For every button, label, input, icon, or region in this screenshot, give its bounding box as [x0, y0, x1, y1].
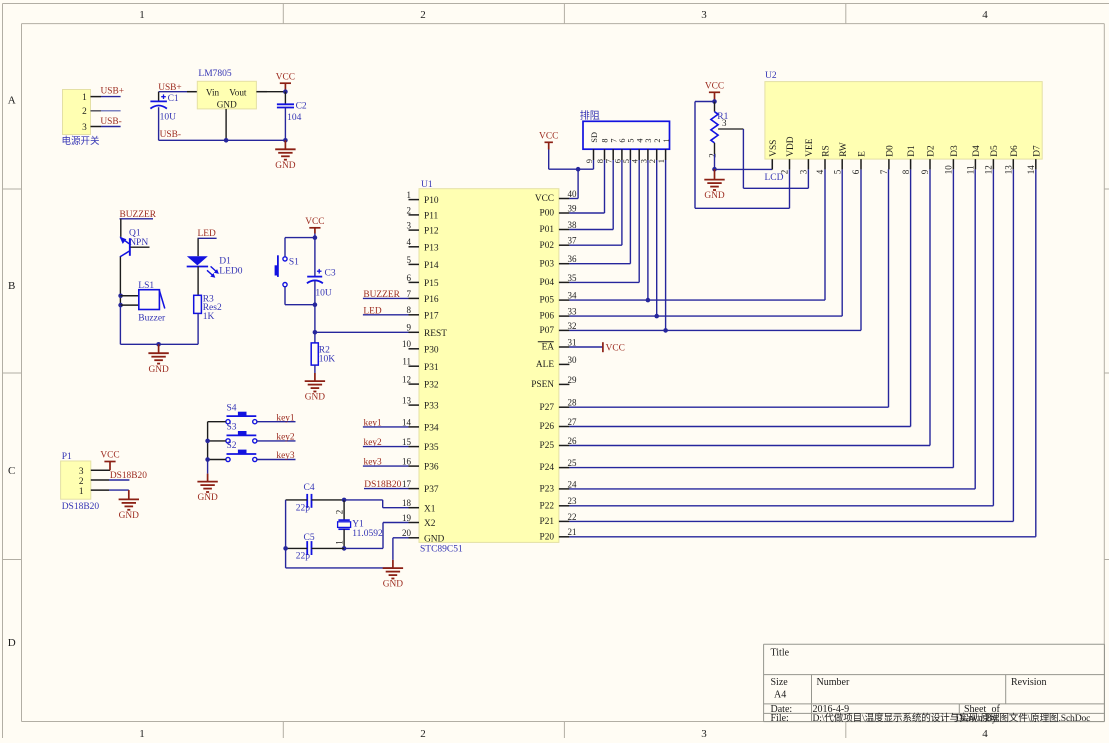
wire keys common — [207, 422, 209, 474]
svg-text:key1: key1 — [276, 413, 295, 423]
U1 pin 11 P31 — [402, 357, 439, 373]
svg-text:7: 7 — [407, 289, 412, 299]
wire X1 — [344, 500, 408, 508]
LCD module U2 body — [765, 71, 1043, 183]
U1 pin 25 P24 — [540, 458, 577, 473]
svg-text:1: 1 — [662, 139, 671, 143]
U1 pin 28 P27 — [540, 398, 577, 413]
svg-text:P17: P17 — [424, 311, 439, 321]
svg-text:P12: P12 — [424, 227, 439, 237]
junction — [342, 546, 347, 551]
wire R2 to ground — [314, 365, 316, 373]
svg-text:1: 1 — [139, 9, 145, 21]
svg-text:11: 11 — [966, 166, 976, 175]
junction — [205, 439, 210, 444]
junction — [283, 89, 288, 94]
svg-text:GND: GND — [148, 365, 169, 375]
U1 pin 12 P32 — [402, 375, 439, 391]
svg-text:8: 8 — [901, 169, 911, 174]
svg-text:Revision: Revision — [1011, 677, 1047, 688]
wire pull-up — [569, 160, 604, 213]
ground — [383, 560, 404, 590]
regulator LM7805 — [197, 69, 256, 109]
wire X2 — [344, 523, 408, 549]
svg-text:VCC: VCC — [305, 217, 324, 227]
U2 pin 3 VEE — [799, 138, 815, 174]
wire LCD data — [569, 169, 910, 426]
svg-text:P06: P06 — [540, 312, 555, 322]
svg-text:VCC: VCC — [606, 343, 625, 353]
wire pin1 — [91, 96, 121, 98]
svg-text:D5: D5 — [990, 145, 1000, 157]
junction — [118, 303, 123, 308]
RN pin 4 — [631, 139, 645, 164]
svg-text:A: A — [8, 95, 16, 107]
U2 pin 8 D1 — [901, 145, 917, 174]
svg-text:5: 5 — [832, 169, 842, 174]
svg-text:A4: A4 — [774, 690, 786, 701]
svg-text:B: B — [8, 280, 15, 292]
svg-text:RS: RS — [822, 145, 832, 156]
svg-text:4: 4 — [635, 139, 644, 143]
U2 pin 13 D6 — [1004, 145, 1020, 174]
svg-text:电源开关: 电源开关 — [62, 135, 101, 147]
U1 pin 7 P16 — [407, 289, 439, 305]
wire P35 — [363, 446, 409, 448]
svg-text:File:: File: — [771, 713, 789, 724]
svg-text:30: 30 — [568, 355, 578, 365]
svg-text:P13: P13 — [424, 243, 439, 253]
switch S4 — [226, 403, 257, 424]
svg-text:P03: P03 — [540, 259, 555, 269]
U1 pin 20 GND — [402, 528, 445, 544]
svg-text:U2: U2 — [765, 71, 777, 81]
U1 pin 1 P10 — [407, 190, 439, 206]
U1 pin 29 PSEN — [531, 375, 577, 390]
svg-text:22p: 22p — [296, 552, 311, 562]
wire REST — [315, 331, 409, 333]
wire to LS1 pins — [120, 296, 138, 305]
U1 pin 22 P21 — [540, 512, 577, 527]
svg-text:P01: P01 — [540, 225, 555, 235]
svg-text:C4: C4 — [304, 483, 315, 493]
svg-text:3: 3 — [407, 221, 412, 231]
wire R1 wiper to VEE — [718, 129, 808, 188]
svg-text:8: 8 — [601, 139, 610, 143]
U1 pin 16 P36 — [402, 457, 439, 473]
wire pull-up — [647, 160, 649, 300]
U1 pin 24 P23 — [540, 479, 577, 494]
wire P1 pin2 — [91, 479, 130, 481]
buzzer LS1 — [138, 281, 166, 324]
RN pin 5 — [622, 139, 636, 164]
svg-text:GND: GND — [197, 493, 218, 503]
wire pull-up — [665, 160, 667, 330]
svg-text:VSS: VSS — [769, 140, 779, 157]
U1 pin 10 P30 — [402, 339, 439, 355]
svg-text:USB+: USB+ — [101, 87, 125, 97]
wire LCD control — [569, 169, 825, 300]
svg-text:23: 23 — [568, 496, 578, 506]
U2 pin 11 D4 — [966, 145, 982, 174]
svg-text:2: 2 — [780, 170, 790, 175]
svg-text:9: 9 — [407, 323, 412, 333]
U1 pin 15 P35 — [402, 437, 439, 453]
wire LCD data — [569, 169, 930, 445]
connector P1 — [61, 452, 100, 512]
svg-text:P07: P07 — [540, 326, 555, 336]
wire emitter rail — [119, 305, 121, 344]
svg-text:22p: 22p — [296, 504, 311, 514]
svg-text:3: 3 — [644, 139, 653, 143]
capacitor C5 — [296, 533, 315, 562]
svg-text:NPN: NPN — [129, 238, 148, 248]
svg-text:9: 9 — [920, 169, 930, 174]
svg-text:LM7805: LM7805 — [198, 69, 232, 79]
RN pin 9 — [585, 132, 599, 163]
svg-text:P27: P27 — [540, 403, 555, 413]
svg-text:18: 18 — [402, 498, 412, 508]
svg-text:2: 2 — [79, 477, 84, 487]
U1 pin 34 P05 — [540, 291, 577, 306]
svg-text:3: 3 — [79, 467, 84, 477]
wire pull-up — [569, 160, 639, 282]
svg-text:1K: 1K — [203, 312, 215, 322]
crystal Y1 — [335, 500, 383, 549]
svg-text:STC89C51: STC89C51 — [420, 545, 463, 555]
svg-text:P20: P20 — [540, 532, 555, 542]
svg-text:D3: D3 — [950, 145, 960, 157]
wire U1 GND pin — [393, 538, 409, 560]
U2 pin 12 D5 — [984, 145, 1000, 174]
resistor R2 — [311, 343, 335, 365]
U2 pin 7 D0 — [879, 145, 895, 174]
wire pull-up — [569, 160, 622, 245]
svg-text:X2: X2 — [424, 519, 436, 529]
svg-text:10: 10 — [944, 165, 954, 175]
svg-text:40: 40 — [568, 189, 578, 199]
svg-text:VCC: VCC — [100, 451, 119, 461]
svg-text:P37: P37 — [424, 485, 439, 495]
RN pin 6 — [613, 139, 627, 164]
wire pin3 — [91, 126, 121, 128]
svg-text:10K: 10K — [319, 354, 336, 364]
junction — [118, 294, 123, 299]
svg-text:2: 2 — [420, 9, 426, 21]
svg-text:ALE: ALE — [536, 360, 554, 370]
wire LCD data — [569, 169, 1013, 521]
svg-text:13: 13 — [402, 396, 412, 406]
svg-text:P15: P15 — [424, 279, 439, 289]
U2 pin 9 D2 — [920, 145, 936, 174]
svg-text:8: 8 — [596, 159, 605, 163]
svg-text:D0: D0 — [886, 145, 896, 157]
wire BUZZER stub — [120, 218, 154, 220]
wire pull-up — [569, 160, 630, 264]
svg-text:P32: P32 — [424, 381, 439, 391]
switch S2 — [226, 441, 257, 461]
power port VCC reset — [305, 217, 324, 238]
svg-text:37: 37 — [568, 236, 578, 246]
svg-text:26: 26 — [568, 436, 578, 446]
svg-text:GND: GND — [383, 580, 404, 590]
svg-text:USB-: USB- — [160, 130, 181, 140]
svg-text:10: 10 — [402, 339, 412, 349]
U1 pin 31 EA — [538, 337, 577, 352]
svg-text:C: C — [8, 465, 15, 477]
wire bottom rail buzzer — [120, 343, 198, 345]
svg-text:P24: P24 — [540, 463, 555, 473]
svg-text:D1: D1 — [219, 257, 231, 267]
wire C1 to Vin — [159, 91, 198, 93]
wire to common — [208, 440, 226, 442]
U1 pin 9 REST — [407, 323, 448, 339]
svg-text:1: 1 — [82, 93, 87, 103]
U1 pin 2 P11 — [407, 205, 439, 221]
svg-text:1: 1 — [657, 159, 666, 163]
RN pin 2 — [648, 139, 662, 164]
capacitor C4 — [296, 483, 315, 514]
ground — [275, 140, 296, 171]
svg-text:1: 1 — [139, 728, 145, 738]
svg-text:Title: Title — [771, 648, 790, 659]
svg-text:VCC: VCC — [539, 132, 558, 142]
wire LCD control — [569, 169, 861, 330]
svg-text:X1: X1 — [424, 504, 436, 514]
svg-text:22: 22 — [568, 512, 577, 522]
svg-text:VDD: VDD — [786, 136, 796, 157]
junction — [313, 235, 318, 240]
switch S1 — [275, 255, 300, 286]
U1 pin 35 P04 — [540, 273, 577, 288]
wire Vout to VCC node — [256, 91, 285, 93]
U1 pin 23 P22 — [540, 496, 577, 511]
U1 pin 30 ALE — [536, 355, 577, 370]
U1 pin 8 P17 — [407, 305, 439, 321]
svg-text:key3: key3 — [276, 451, 295, 461]
svg-text:24: 24 — [568, 479, 578, 489]
svg-text:15: 15 — [402, 437, 412, 447]
svg-text:16: 16 — [402, 457, 412, 467]
svg-text:P30: P30 — [424, 345, 439, 355]
junction — [646, 298, 651, 303]
svg-text:2: 2 — [653, 139, 662, 143]
svg-text:VEE: VEE — [805, 138, 815, 156]
svg-text:9: 9 — [585, 159, 594, 163]
wire R1 bottom — [714, 154, 716, 169]
svg-text:D4: D4 — [972, 145, 982, 157]
svg-text:7: 7 — [605, 159, 614, 163]
svg-text:P14: P14 — [424, 261, 439, 271]
svg-text:3: 3 — [722, 118, 727, 128]
U1 pin 32 P07 — [540, 321, 577, 336]
svg-text:4: 4 — [982, 728, 988, 738]
wire to D1 — [197, 238, 199, 256]
wire key1 — [257, 421, 296, 423]
junction — [313, 330, 318, 335]
wire Q1 emitter down — [119, 257, 121, 305]
power port VCC at EA — [603, 342, 625, 353]
svg-text:P25: P25 — [540, 441, 555, 451]
svg-text:10U: 10U — [160, 112, 177, 122]
svg-text:21: 21 — [568, 527, 577, 537]
U1 pin 36 P03 — [540, 254, 577, 269]
svg-text:10U: 10U — [315, 288, 332, 298]
U1 pin 14 P34 — [402, 417, 439, 433]
svg-text:S1: S1 — [289, 257, 299, 267]
svg-text:19: 19 — [402, 513, 412, 523]
svg-text:13: 13 — [1004, 165, 1014, 175]
svg-text:4: 4 — [815, 169, 825, 174]
ground — [305, 373, 326, 403]
svg-text:VCC: VCC — [535, 194, 554, 204]
U2 pin 6 E — [851, 151, 867, 174]
wire key2 — [257, 440, 296, 442]
wire S1 bottom — [284, 287, 286, 305]
svg-text:2: 2 — [648, 159, 657, 163]
svg-text:P16: P16 — [424, 295, 439, 305]
wire P1 pin3 — [91, 469, 110, 471]
wire LED stub — [198, 237, 217, 239]
capacitor C1 — [150, 92, 179, 141]
svg-text:29: 29 — [568, 375, 578, 385]
svg-text:Buzzer: Buzzer — [138, 314, 166, 324]
wire P17 — [363, 314, 409, 316]
svg-text:7: 7 — [609, 139, 618, 143]
svg-text:Vout: Vout — [229, 87, 247, 97]
svg-text:P22: P22 — [540, 501, 555, 511]
power port VCC at RN — [539, 132, 558, 170]
junction — [283, 546, 288, 551]
svg-text:20: 20 — [402, 528, 412, 538]
U1 pin 40 VCC — [535, 189, 577, 204]
wire EA — [569, 346, 603, 348]
svg-text:D2: D2 — [927, 145, 937, 157]
svg-text:P26: P26 — [540, 422, 555, 432]
wire VCC to VDD loop — [695, 102, 790, 209]
U2 pin 14 D7 — [1026, 145, 1042, 174]
U2 pin 4 RS — [815, 145, 831, 174]
wire P16 — [363, 297, 409, 299]
svg-text:104: 104 — [287, 113, 302, 123]
switch S3 — [226, 423, 257, 443]
RN pin 8 — [596, 139, 610, 164]
wire reset bottom — [285, 304, 315, 306]
U1 pin 38 P01 — [540, 220, 577, 235]
svg-text:2: 2 — [82, 107, 87, 117]
power port VCC at P1 — [100, 451, 119, 471]
title block — [764, 644, 1105, 721]
svg-text:P35: P35 — [424, 443, 439, 453]
U1 pin 26 P25 — [540, 436, 577, 451]
svg-text:PSEN: PSEN — [531, 380, 554, 390]
junction — [224, 138, 229, 143]
wire pull-up — [656, 160, 658, 316]
junction — [283, 138, 288, 143]
title block texts — [771, 648, 1091, 725]
svg-text:P33: P33 — [424, 402, 439, 412]
svg-text:U1: U1 — [421, 180, 433, 190]
svg-text:GND: GND — [275, 161, 296, 171]
U1 pin 39 P00 — [540, 203, 577, 218]
capacitor C2 — [277, 92, 307, 141]
svg-text:36: 36 — [568, 254, 578, 264]
U2 pin 10 D3 — [944, 145, 960, 174]
U1 pin 6 P15 — [407, 273, 439, 289]
svg-text:D6: D6 — [1010, 145, 1020, 157]
svg-text:LS1: LS1 — [138, 281, 154, 291]
svg-text:DS18B20: DS18B20 — [110, 471, 147, 481]
svg-text:8: 8 — [407, 305, 412, 315]
svg-text:7: 7 — [879, 169, 889, 174]
svg-text:14: 14 — [1026, 165, 1036, 175]
svg-text:P10: P10 — [424, 196, 439, 206]
svg-text:REST: REST — [424, 329, 447, 339]
resistor network RN1 排阻 — [580, 109, 670, 149]
ground — [197, 474, 218, 504]
svg-text:3: 3 — [82, 123, 87, 133]
svg-text:27: 27 — [568, 417, 578, 427]
junction — [663, 328, 668, 333]
svg-text:EA: EA — [542, 343, 555, 353]
U1 pin 27 P26 — [540, 417, 577, 432]
svg-text:4: 4 — [407, 237, 412, 247]
svg-text:1: 1 — [335, 540, 345, 545]
svg-text:P1: P1 — [62, 452, 72, 462]
svg-text:key2: key2 — [276, 433, 295, 443]
capacitor C3 — [307, 238, 336, 305]
wire reset top — [285, 237, 315, 239]
svg-text:LED0: LED0 — [219, 267, 242, 277]
svg-text:GND: GND — [704, 191, 725, 201]
U1 pin 19 X2 — [402, 513, 436, 529]
svg-text:P31: P31 — [424, 363, 439, 373]
U2 pin 2 VDD — [780, 136, 796, 174]
wire R3 to rail — [197, 313, 199, 344]
wire C5 right — [312, 547, 345, 549]
wire crystal left vertical — [285, 500, 287, 568]
svg-text:31: 31 — [568, 337, 577, 347]
U2 pin 1 VSS — [769, 140, 779, 170]
LED D1 — [187, 256, 243, 278]
op-amp U1 STC89C51 body — [419, 180, 559, 555]
svg-text:DS18B20: DS18B20 — [62, 502, 100, 512]
svg-text:14: 14 — [402, 417, 412, 427]
wire LCD control — [569, 169, 842, 316]
svg-text:5: 5 — [627, 139, 636, 143]
U1 pin 3 P12 — [407, 221, 439, 237]
svg-text:RW: RW — [839, 142, 849, 157]
svg-text:S2: S2 — [227, 441, 237, 451]
svg-text:25: 25 — [568, 458, 578, 468]
wire key3 — [257, 459, 296, 461]
junction — [712, 167, 717, 172]
svg-text:12: 12 — [402, 375, 411, 385]
svg-text:33: 33 — [568, 307, 578, 317]
U1 pin 17 P37 — [402, 479, 439, 495]
svg-text:35: 35 — [568, 273, 578, 283]
wire to S1 — [284, 238, 286, 257]
RN pin 7 — [605, 139, 619, 164]
svg-text:P21: P21 — [540, 517, 555, 527]
svg-text:Number: Number — [817, 677, 850, 688]
svg-text:GND: GND — [119, 511, 140, 521]
svg-text:GND: GND — [305, 393, 326, 403]
wire LCD data — [569, 169, 975, 489]
wire D1 to R3 — [197, 267, 199, 296]
U2 pin 5 RW — [832, 142, 848, 174]
potentiometer R1 — [708, 102, 729, 158]
